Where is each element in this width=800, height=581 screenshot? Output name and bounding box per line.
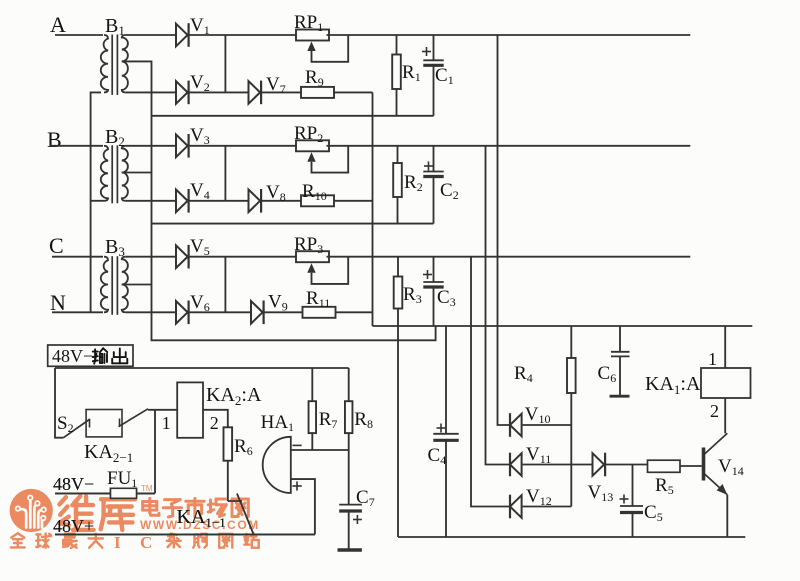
ground bbox=[338, 548, 362, 551]
node 48V+ label overlay bbox=[53, 516, 94, 536]
diode V4 bbox=[176, 180, 210, 213]
diode V9 bbox=[251, 292, 288, 325]
svg-text:KA2:A: KA2:A bbox=[206, 384, 262, 408]
resistor R6 bbox=[224, 427, 253, 460]
buzzer HA1 bbox=[261, 412, 294, 493]
wire HA1 minus bbox=[291, 445, 349, 450]
resistor R2 bbox=[393, 146, 422, 224]
wire phase N bbox=[52, 311, 103, 313]
wire R10 to common bbox=[334, 200, 373, 202]
wire V5 row bbox=[126, 256, 691, 258]
contact KA1-1 bbox=[177, 494, 254, 534]
resistor R9 bbox=[301, 67, 334, 98]
node C bbox=[49, 233, 64, 258]
wire KA1 pin2 to collector bbox=[725, 398, 727, 433]
svg-text:I: I bbox=[114, 533, 121, 552]
node N bbox=[50, 290, 66, 315]
diode V6 bbox=[176, 292, 210, 324]
potentiometer RP1 bbox=[294, 12, 348, 62]
diode V10 bbox=[510, 404, 551, 437]
svg-text:1: 1 bbox=[162, 413, 171, 433]
transformer B2 bbox=[101, 126, 128, 203]
wire phase C bbox=[52, 256, 103, 258]
capacitor C6 bbox=[598, 326, 630, 396]
svg-text:48V−: 48V− bbox=[53, 474, 94, 494]
wire 48V+ rail bbox=[55, 533, 315, 535]
svg-text:C: C bbox=[140, 533, 152, 552]
wire R4 join bbox=[570, 393, 572, 507]
diode V1 bbox=[176, 15, 210, 47]
wire phase B bbox=[50, 145, 103, 147]
capacitor C4 bbox=[428, 326, 459, 537]
relay coil KA1:A bbox=[645, 349, 751, 421]
wire common rail bbox=[373, 325, 753, 327]
svg-text:KA1:A: KA1:A bbox=[645, 373, 701, 397]
wire emitter down bbox=[726, 495, 728, 537]
capacitor C1 bbox=[422, 35, 454, 116]
switch S2 bbox=[57, 413, 90, 438]
potentiometer RP3 bbox=[294, 234, 348, 284]
node B bbox=[47, 127, 62, 152]
svg-text:N: N bbox=[50, 290, 66, 315]
transformer B1 bbox=[101, 15, 128, 95]
wire relay pin2 bbox=[203, 410, 228, 428]
resistor R7 bbox=[309, 368, 338, 450]
capacitor C2 bbox=[423, 146, 458, 224]
svg-text:1: 1 bbox=[708, 349, 717, 369]
diode V5 bbox=[176, 236, 210, 269]
capacitor C3 bbox=[423, 257, 456, 326]
wire V2 row bbox=[126, 91, 301, 93]
wire phase A bbox=[55, 34, 103, 36]
wire C7 to ground bbox=[348, 511, 350, 549]
node 48V- output bbox=[48, 345, 133, 366]
svg-text:C: C bbox=[49, 233, 64, 258]
resistor R5 bbox=[648, 460, 681, 497]
wire center-tap rail bbox=[122, 61, 436, 340]
potentiometer RP2 bbox=[294, 123, 348, 173]
wire S2 drop bbox=[55, 368, 63, 438]
svg-text:48V−: 48V− bbox=[52, 346, 93, 366]
wire KA1 pin1 bbox=[724, 326, 726, 368]
diode V8 bbox=[249, 182, 286, 213]
svg-text:B: B bbox=[47, 127, 62, 152]
wire R3 lead down bbox=[397, 309, 399, 538]
transistor V14 bbox=[704, 433, 744, 495]
node A bbox=[50, 12, 66, 37]
capacitor C5 bbox=[620, 465, 663, 538]
wire 48V- bus bbox=[55, 367, 349, 369]
transformer B3 bbox=[101, 236, 128, 315]
contact KA1-1 overlay bbox=[177, 480, 254, 534]
wire R5 to base bbox=[680, 465, 702, 467]
wire HA1 plus bbox=[291, 479, 315, 534]
wire V10 out bbox=[523, 424, 572, 426]
relay coil KA2:A bbox=[162, 382, 262, 437]
wire V1 row bbox=[126, 34, 691, 36]
resistor R10 bbox=[301, 181, 334, 206]
svg-text:48V+: 48V+ bbox=[53, 516, 94, 536]
diode V12 bbox=[510, 486, 552, 518]
wire A sense drop bbox=[498, 35, 511, 425]
wire R6 down bbox=[228, 461, 242, 501]
wire FU junction bbox=[154, 410, 156, 494]
wire common drop bbox=[372, 92, 374, 326]
wire B sense drop bbox=[486, 146, 511, 465]
wire V13 to R5 bbox=[605, 464, 647, 466]
diode V2 bbox=[176, 72, 210, 104]
wire to relay bbox=[148, 409, 177, 411]
wire junction B bbox=[224, 146, 226, 201]
wire junction C bbox=[224, 257, 226, 313]
resistor R4 bbox=[514, 326, 576, 393]
wire V6 row bbox=[126, 311, 303, 313]
wire primary return bbox=[91, 92, 104, 312]
wire junction A bbox=[224, 35, 226, 92]
wire R9 to common bbox=[334, 91, 373, 93]
svg-text:2: 2 bbox=[710, 401, 719, 421]
svg-text:TM: TM bbox=[141, 484, 153, 493]
diode V7 bbox=[249, 74, 286, 104]
diode V3 bbox=[176, 125, 210, 158]
resistor R3 bbox=[394, 257, 422, 309]
resistor R11 bbox=[303, 288, 336, 318]
capacitor C7 bbox=[339, 450, 374, 524]
wire rail2 bbox=[152, 223, 434, 225]
fuse FU1 overlay bbox=[55, 488, 155, 498]
svg-text:A: A bbox=[50, 12, 66, 37]
resistor R1 bbox=[392, 35, 420, 116]
wire V3 row bbox=[126, 145, 691, 147]
contact KA2-1 bbox=[84, 409, 148, 465]
watermark logo and text bbox=[10, 484, 260, 552]
wire R11 to common bbox=[336, 311, 373, 313]
wire V4 row bbox=[126, 200, 301, 202]
wire 48V+ rail right bbox=[398, 536, 745, 538]
diode V13 bbox=[588, 453, 614, 504]
node 48V+ bbox=[53, 516, 94, 536]
wire rail1 bbox=[152, 115, 434, 117]
diode V11 bbox=[510, 444, 551, 476]
wire 48V+ rail overlay bbox=[55, 533, 315, 535]
node 48V- label overlay bbox=[53, 474, 94, 494]
svg-text:2: 2 bbox=[210, 413, 219, 433]
resistor R8 bbox=[345, 368, 373, 450]
node 48V- bbox=[53, 474, 94, 494]
wire V12 out bbox=[523, 506, 572, 508]
fuse FU1 bbox=[55, 468, 155, 498]
wire V11 out bbox=[523, 464, 593, 466]
wire C sense drop bbox=[471, 257, 510, 507]
